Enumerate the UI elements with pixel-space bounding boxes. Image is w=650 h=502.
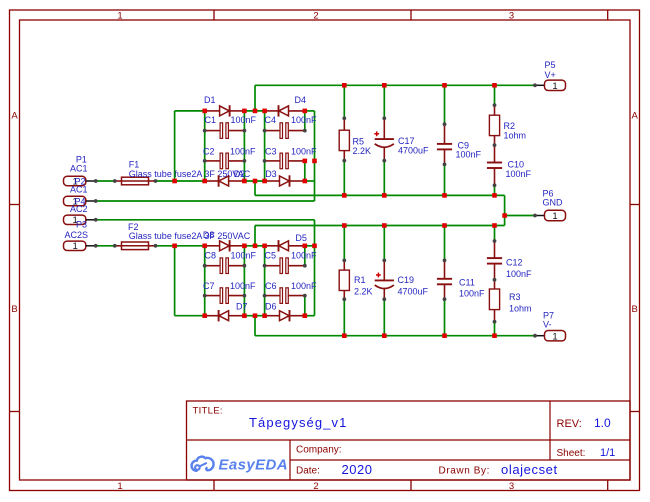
svg-text:D3: D3 [265, 169, 277, 179]
svg-text:1.0: 1.0 [594, 416, 611, 430]
capacitor C7 100nF [203, 281, 256, 303]
diode D6 [265, 302, 305, 322]
svg-text:1: 1 [552, 81, 557, 92]
svg-text:100nF: 100nF [506, 269, 532, 279]
svg-text:1: 1 [552, 211, 557, 222]
capacitor C2 100nF [203, 147, 256, 169]
svg-text:C2: C2 [203, 147, 215, 157]
capacitor C6 100nF [265, 281, 317, 303]
svg-text:3: 3 [509, 481, 514, 492]
svg-text:AC1: AC1 [70, 164, 88, 174]
svg-text:R5: R5 [353, 137, 365, 147]
svg-text:Date:: Date: [296, 466, 320, 477]
svg-text:100nF: 100nF [291, 251, 317, 261]
svg-text:100nF: 100nF [459, 289, 485, 299]
svg-text:olajecset: olajecset [501, 462, 558, 477]
diode D2 [205, 169, 246, 187]
diode D5 [265, 233, 307, 252]
svg-text:Drawn By:: Drawn By: [439, 466, 491, 477]
resistor R3 1ohm [489, 280, 531, 322]
svg-text:V-: V- [543, 320, 552, 330]
fuse F1 Glass tube fuse2A 3F 250VAC [115, 160, 251, 185]
wire net AC1S lower bridge [96, 246, 205, 316]
resistor R5 2.2K [339, 118, 371, 160]
svg-text:C3: C3 [265, 147, 277, 157]
junctions net GND [342, 193, 507, 228]
svg-text:C7: C7 [203, 281, 215, 291]
wire bridge1 mid columns [244, 111, 264, 181]
svg-text:D4: D4 [295, 95, 307, 105]
svg-text:C8: C8 [205, 251, 217, 261]
svg-text:R2: R2 [504, 121, 516, 131]
svg-text:100nF: 100nF [291, 147, 317, 157]
diode D7 [205, 302, 248, 322]
svg-text:A: A [632, 111, 639, 122]
svg-text:B: B [632, 304, 638, 315]
svg-text:C6: C6 [265, 281, 277, 291]
resistor R2 1ohm [489, 105, 526, 145]
svg-text:C11: C11 [459, 278, 475, 288]
wire bridge2 mid columns [244, 246, 264, 316]
svg-text:P5: P5 [545, 60, 556, 70]
capacitor C9 100nF [437, 124, 482, 164]
svg-text:C17: C17 [398, 136, 415, 146]
junctions bridge1 [172, 109, 317, 184]
connector P3 pin 1 [64, 215, 96, 229]
junctions net V- [342, 333, 497, 338]
svg-text:2020: 2020 [342, 462, 373, 477]
svg-text:C1: C1 [205, 115, 217, 125]
svg-text:R3: R3 [509, 292, 521, 302]
svg-text:R1: R1 [354, 275, 366, 285]
svg-text:100nF: 100nF [456, 150, 482, 160]
junctions bridge2 [172, 244, 317, 319]
capacitor C3 100nF [265, 147, 317, 169]
pin end dots [94, 83, 537, 337]
svg-text:B: B [11, 304, 17, 315]
svg-text:2.2K: 2.2K [353, 146, 372, 156]
connector P6 (GND) pin 1 [535, 189, 566, 223]
svg-text:REV:: REV: [557, 418, 582, 430]
capacitor C4 100nF [265, 115, 318, 138]
svg-text:V+: V+ [545, 70, 556, 80]
svg-text:100nF: 100nF [291, 115, 317, 125]
junctions net V+ [253, 83, 497, 113]
svg-text:P3: P3 [76, 220, 87, 230]
fuse F2 Glass tube fuse2A 3F 250VAC [115, 222, 251, 250]
connector P5 (V+) pin 1 [535, 60, 566, 92]
connector P7 (V-) pin 1 [535, 311, 566, 343]
svg-text:C12: C12 [506, 258, 523, 268]
resistor R1 2.2K [339, 260, 372, 299]
svg-text:AC1: AC1 [70, 185, 88, 195]
connector P1 (AC1) [70, 155, 88, 174]
svg-text:1: 1 [73, 241, 78, 252]
connector P4 pin 1 [64, 196, 96, 207]
svg-text:TITLE:: TITLE: [193, 405, 223, 416]
svg-text:EasyEDA: EasyEDA [219, 457, 289, 474]
svg-text:100nF: 100nF [291, 281, 317, 291]
svg-text:100nF: 100nF [231, 115, 257, 125]
wire net AC1 [96, 111, 205, 181]
svg-text:A: A [11, 111, 18, 122]
capacitor C10 100nF [487, 145, 532, 185]
svg-text:100nF: 100nF [230, 147, 256, 157]
diode D8 [203, 230, 245, 252]
svg-text:3: 3 [509, 10, 514, 21]
svg-text:D2: D2 [234, 169, 246, 179]
svg-text:Company:: Company: [296, 445, 342, 456]
svg-text:C10: C10 [508, 160, 525, 170]
svg-text:D7: D7 [236, 302, 248, 312]
svg-text:1: 1 [552, 331, 557, 342]
capacitor C12 100nF [487, 241, 532, 280]
svg-text:2: 2 [313, 10, 318, 21]
wire net V- [255, 299, 535, 336]
svg-text:2: 2 [313, 481, 318, 492]
diode D1 [204, 95, 244, 117]
svg-text:100nF: 100nF [230, 281, 256, 291]
capacitor C8 100nF [205, 251, 257, 274]
svg-text:4700uF: 4700uF [398, 287, 429, 297]
capacitor C17 4700uF polarized [374, 118, 429, 160]
wire net V+ [255, 85, 535, 124]
svg-text:D6: D6 [265, 302, 277, 312]
svg-text:D8: D8 [203, 230, 215, 240]
svg-text:D5: D5 [295, 233, 307, 243]
svg-text:C5: C5 [265, 251, 277, 261]
svg-text:1ohm: 1ohm [509, 304, 532, 314]
svg-text:AC2: AC2 [70, 204, 88, 214]
svg-text:C4: C4 [265, 115, 277, 125]
svg-text:AC2S: AC2S [65, 230, 89, 240]
svg-text:100nF: 100nF [231, 251, 257, 261]
capacitor C5 100nF [265, 251, 318, 274]
diode D3 [265, 169, 305, 187]
svg-text:C19: C19 [398, 275, 415, 285]
capacitor C11 100nF [437, 260, 485, 299]
svg-text:100nF: 100nF [506, 169, 532, 179]
svg-text:GND: GND [543, 198, 564, 208]
wire net AC2S [96, 220, 315, 316]
svg-text:1ohm: 1ohm [504, 131, 527, 141]
svg-text:F1: F1 [129, 160, 140, 170]
svg-text:Glass tube fuse2A 3F 250VAC: Glass tube fuse2A 3F 250VAC [129, 169, 251, 179]
wire net GND [255, 161, 535, 261]
svg-text:Glass tube fuse2A 3F 250VAC: Glass tube fuse2A 3F 250VAC [129, 231, 251, 241]
diode D4 [265, 95, 306, 117]
svg-text:Tápegység_v1: Tápegység_v1 [249, 415, 347, 430]
capacitor C1 100nF [205, 115, 257, 138]
connector AC2S pin 1 [64, 241, 96, 252]
svg-text:D1: D1 [204, 95, 216, 105]
svg-text:Sheet:: Sheet: [557, 448, 586, 459]
capacitor C19 4700uF polarized [375, 260, 429, 299]
svg-text:1/1: 1/1 [600, 447, 615, 459]
svg-text:4700uF: 4700uF [398, 146, 429, 156]
svg-text:1: 1 [117, 10, 122, 21]
svg-text:2.2K: 2.2K [354, 287, 373, 297]
svg-text:1: 1 [117, 481, 122, 492]
wire net AC2 [96, 111, 315, 201]
connector P2 pin 1 [64, 176, 96, 187]
